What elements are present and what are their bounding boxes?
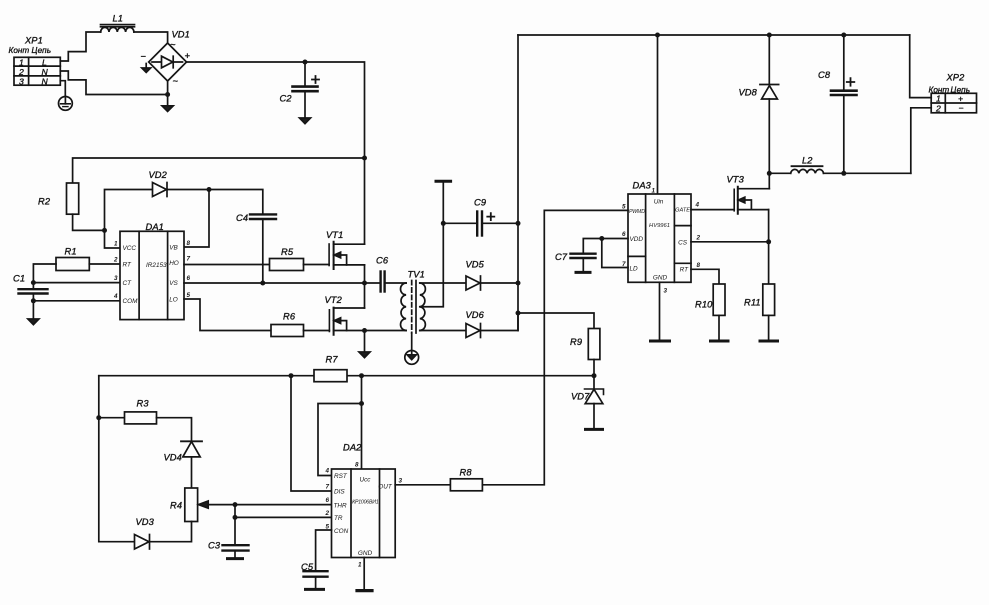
svg-text:CS: CS	[678, 239, 688, 246]
svg-text:8: 8	[187, 240, 191, 247]
svg-text:Ucc: Ucc	[359, 477, 371, 484]
wire rail to DIS pin7	[291, 376, 332, 491]
svg-text:N: N	[42, 76, 49, 86]
svg-text:VDD: VDD	[630, 236, 644, 243]
svg-text:VD1: VD1	[172, 30, 190, 40]
svg-text:2: 2	[935, 103, 941, 113]
transformer TV1 core	[412, 281, 416, 334]
wire XP1 pin1 to L1	[60, 32, 100, 61]
svg-text:−: −	[141, 52, 147, 62]
svg-text:R3: R3	[137, 399, 150, 409]
XP1 labels	[9, 36, 52, 87]
svg-text:L2: L2	[802, 156, 813, 166]
resistor R10	[713, 284, 725, 315]
ground bar VD7	[586, 428, 603, 431]
TV1 screen to earth	[405, 333, 419, 364]
svg-text:VD7: VD7	[571, 392, 590, 402]
wire DA2 OUT pin3 to R8	[395, 484, 450, 486]
svg-text:R2: R2	[38, 197, 51, 207]
capacitor C8 (electrolytic)	[831, 35, 857, 173]
svg-text:3: 3	[114, 275, 118, 282]
svg-text:LD: LD	[630, 266, 639, 273]
ground bar C7	[576, 271, 590, 274]
svg-text:3: 3	[664, 288, 668, 295]
svg-text:R1: R1	[65, 247, 77, 257]
wire R3 to VD4	[157, 418, 192, 441]
wire VDD node to LD pin7	[602, 239, 628, 268]
node bus/R9	[516, 311, 521, 316]
wire VD4 to R4	[191, 457, 193, 488]
resistor R7	[314, 370, 347, 382]
wire bus node to R9	[518, 313, 594, 329]
ground bar C3	[228, 557, 243, 560]
wire C6 to TV1 primary top	[385, 282, 407, 284]
svg-text:C6: C6	[376, 256, 389, 266]
svg-text:C9: C9	[474, 198, 486, 208]
svg-text:5: 5	[187, 292, 191, 299]
svg-text:Uin: Uin	[654, 199, 664, 206]
svg-text:VD5: VD5	[466, 260, 485, 270]
wire VS rail DA1 pin6 to C6	[184, 282, 381, 284]
svg-text:GND: GND	[358, 550, 373, 557]
wire R9 to supply rail node	[593, 360, 595, 376]
svg-text:КР1006ВИ1: КР1006ВИ1	[352, 500, 379, 506]
diode VD8	[760, 35, 779, 173]
capacitor C2 (electrolytic)	[293, 62, 320, 124]
connector XP1	[14, 57, 60, 85]
wire plus output to XP2 pin1	[910, 35, 932, 98]
resistor R11	[763, 284, 775, 315]
wire DA3 RT pin8 to R10	[691, 269, 719, 284]
op-amp U1: driver IC DA1 IR2153	[120, 231, 184, 319]
wire sense node to R11	[768, 242, 770, 284]
svg-text:R10: R10	[695, 300, 713, 310]
wire R5 to VT1 gate	[304, 264, 330, 266]
ground arrow below C1	[28, 319, 39, 325]
wire VB bootstrap to DA1 pin8	[184, 190, 209, 248]
svg-text:RST: RST	[334, 473, 348, 480]
wire rail left leg down	[99, 376, 135, 542]
capacitor C4	[250, 214, 276, 283]
resistor R1	[56, 258, 89, 271]
node COM	[31, 298, 36, 303]
wire minus output to XP2 pin2	[911, 108, 931, 174]
svg-text:N: N	[42, 67, 49, 77]
svg-text:3: 3	[19, 76, 24, 86]
node RST branch	[359, 401, 364, 406]
wire DA3 CS pin2 to sense node	[691, 241, 769, 243]
svg-text:CT: CT	[123, 280, 133, 287]
svg-text:C4: C4	[236, 213, 248, 223]
diode VD3	[135, 535, 150, 550]
svg-text:L: L	[42, 57, 47, 67]
svg-text:3: 3	[399, 478, 403, 485]
node TR branch	[233, 515, 238, 520]
wire VT2 source to TV1 primary bottom	[365, 330, 407, 332]
svg-text:TV1: TV1	[408, 270, 425, 280]
wire switch node to L2	[769, 172, 790, 174]
node rail/C8	[841, 33, 846, 38]
wire rail to VCC pin8	[361, 376, 363, 469]
diode VD5	[466, 276, 481, 290]
svg-text:2: 2	[696, 235, 701, 242]
diode VD2	[153, 183, 168, 197]
wire TR node to DA2 TR pin2	[235, 516, 332, 518]
svg-text:−: −	[959, 103, 964, 113]
node bus/C9	[516, 221, 521, 226]
wire VDD node to DA3 pin6	[602, 238, 628, 240]
svg-text:OUT: OUT	[378, 484, 393, 491]
node VS/VT1 source	[362, 281, 367, 286]
capacitor C7	[571, 254, 596, 272]
wire bridge plus output rail	[187, 62, 365, 244]
svg-text:VB: VB	[169, 244, 178, 251]
svg-text:GATE: GATE	[675, 208, 690, 214]
wire XP1 pin3 to earth	[60, 81, 65, 97]
svg-text:6: 6	[622, 231, 626, 238]
svg-text:VT2: VT2	[325, 295, 343, 305]
capacitor C3	[223, 545, 249, 558]
wire R10 to ground	[718, 315, 720, 340]
svg-text:PWMD: PWMD	[629, 209, 645, 215]
wire R8 up to DA3 PWMD pin5	[482, 210, 628, 484]
svg-text:7: 7	[325, 484, 329, 491]
low-voltage supply rail	[99, 375, 594, 377]
resistor R6	[271, 325, 304, 337]
svg-text:VD6: VD6	[466, 310, 485, 320]
LED driver IC DA3 HV9961	[628, 194, 691, 282]
transistor Q3: MOSFET VT3	[734, 173, 769, 242]
svg-text:DA2: DA2	[343, 443, 362, 453]
svg-text:R8: R8	[460, 468, 473, 478]
resistor R2	[67, 183, 79, 214]
svg-text:1: 1	[19, 57, 24, 67]
capacitor C6	[381, 272, 385, 292]
svg-text:~: ~	[173, 76, 179, 86]
svg-text:R7: R7	[326, 355, 339, 365]
transformer TV1 secondary windings	[420, 283, 426, 331]
node CS/VT3 source	[766, 239, 771, 244]
node: rail to R2 branch	[362, 156, 367, 161]
wire node to DA1 pin1	[105, 230, 121, 248]
ground bar DA3	[651, 340, 670, 343]
svg-text:L1: L1	[113, 14, 124, 24]
capacitor C1	[19, 289, 48, 319]
svg-text:C1: C1	[13, 274, 25, 284]
svg-text:1: 1	[358, 562, 362, 569]
svg-text:7: 7	[187, 256, 191, 263]
node rail/DA3 Uin	[655, 33, 660, 38]
svg-text:C7: C7	[555, 252, 568, 262]
svg-text:THR: THR	[334, 502, 348, 509]
svg-text:VD4: VD4	[164, 453, 182, 463]
svg-text:C3: C3	[208, 541, 221, 551]
diode VD6	[466, 324, 481, 338]
resistor R9	[588, 329, 600, 360]
node R3 branch	[96, 415, 101, 420]
svg-text:2: 2	[18, 67, 24, 77]
wire TV1 centre tap to earth bar	[420, 182, 444, 306]
svg-text:6: 6	[187, 275, 191, 282]
svg-text:4: 4	[113, 293, 118, 300]
node R9/VD7/rail	[592, 373, 597, 378]
svg-text:4: 4	[324, 468, 329, 475]
svg-text:HV9961: HV9961	[649, 223, 670, 229]
svg-text:R5: R5	[281, 247, 294, 257]
svg-text:+: +	[185, 51, 191, 61]
wire COM node to DA1 pin4	[33, 300, 120, 302]
svg-text:VD3: VD3	[136, 517, 155, 527]
wire L2 to output	[824, 172, 911, 174]
ground bar DA2	[357, 589, 372, 592]
resistor R3	[125, 412, 157, 424]
wire RST loop to pin4	[318, 404, 362, 476]
zener diode VD7	[585, 376, 604, 429]
transformer TV1 primary winding	[401, 283, 407, 331]
wire DA1 LO pin5 to R6	[184, 299, 271, 331]
wire Uin stub	[657, 35, 659, 194]
wire L1 to bridge top	[134, 32, 168, 43]
wire R6 to VT2 gate	[304, 330, 330, 332]
wire bridge bottom to ground	[162, 81, 173, 111]
node L2/C8	[841, 171, 846, 176]
svg-text:5: 5	[622, 204, 626, 211]
node VCC junction	[102, 228, 107, 233]
ground bar above TV1 tap	[436, 180, 451, 183]
node: plus rail / C2	[303, 60, 308, 65]
wire DA3 GATE pin4 to VT3	[691, 209, 734, 211]
node wiper/THR	[233, 502, 238, 507]
svg-text:RT: RT	[680, 267, 689, 274]
svg-text:R11: R11	[744, 298, 761, 308]
wire DA2 CON pin5 to C5	[316, 530, 332, 571]
potentiometer R4	[185, 488, 235, 522]
svg-text:Конт: Конт	[9, 46, 30, 55]
XP2 labels	[929, 73, 971, 114]
DA2 labels and pin numbers	[324, 443, 402, 569]
svg-text:8: 8	[697, 262, 701, 269]
svg-text:4: 4	[695, 202, 700, 209]
top DC rail	[518, 34, 910, 36]
wire C9 to DC bus	[482, 222, 518, 224]
svg-text:C5: C5	[301, 562, 314, 572]
wire DA3 GND to ground	[659, 282, 661, 340]
svg-text:VCC: VCC	[123, 245, 137, 252]
bridge rectifier VD1	[149, 43, 187, 81]
resistor R8	[450, 479, 482, 491]
node tap/C9	[441, 221, 446, 226]
ground bar R10	[711, 340, 729, 343]
node switch/L2	[767, 171, 772, 176]
wire R2 bottom to VCC node	[73, 214, 105, 230]
svg-text:LO: LO	[169, 296, 178, 303]
wire VD5 cathode to DC bus	[481, 282, 519, 284]
DA3 labels and pin numbers	[622, 181, 701, 295]
svg-text:R6: R6	[283, 312, 296, 322]
wire CT node to DA1 pin3	[33, 282, 120, 284]
DA1 labels and pin numbers	[113, 222, 191, 305]
wire TV1 secondary top to VD5	[420, 282, 466, 284]
capacitor C5	[304, 571, 328, 589]
svg-text:DA1: DA1	[146, 222, 164, 232]
svg-text:VD8: VD8	[739, 88, 758, 98]
svg-text:~: ~	[170, 40, 176, 50]
node VD2/VB	[207, 187, 212, 192]
transistor Q1: MOSFET VT1	[329, 242, 364, 283]
node bus/VD5	[516, 281, 521, 286]
svg-text:GND: GND	[653, 275, 668, 282]
earth symbol (circle ground) at XP1	[59, 97, 73, 111]
timer IC DA2 KR1006VI1	[332, 469, 396, 558]
node rail/VCC branch	[359, 373, 364, 378]
inductor L1 (common-mode choke)	[101, 25, 135, 32]
svg-text:VS: VS	[169, 280, 178, 287]
wire R4 bottom to VD3	[150, 522, 192, 542]
resistor R5	[270, 259, 304, 271]
svg-text:IR2153: IR2153	[146, 262, 167, 269]
ground bar R11	[760, 340, 778, 343]
wire XP1 pin2 to bridge bottom rail	[60, 71, 167, 95]
node CT	[31, 280, 36, 285]
svg-text:1: 1	[114, 241, 118, 248]
svg-text:COM: COM	[123, 298, 139, 305]
svg-text:CON: CON	[334, 528, 349, 535]
svg-text:Цепь: Цепь	[32, 46, 52, 55]
svg-text:HO: HO	[169, 260, 179, 267]
wire VD2 cathode to C4	[167, 190, 263, 215]
wire R1 to DA1 pin2	[89, 263, 120, 265]
svg-text:VT1: VT1	[326, 230, 343, 240]
capacitor C9 (polarised)	[477, 212, 494, 236]
svg-text:1: 1	[936, 94, 941, 104]
svg-text:6: 6	[325, 497, 329, 504]
svg-text:2: 2	[113, 257, 118, 264]
svg-text:R9: R9	[570, 337, 582, 347]
node VDD	[599, 236, 604, 241]
DC bus vertical	[517, 35, 519, 331]
wire node to R3	[99, 417, 125, 419]
wire tap node to C9	[443, 222, 477, 224]
svg-text:VD2: VD2	[149, 170, 168, 180]
wire node to VD2 anode	[105, 190, 153, 231]
svg-text:DIS: DIS	[334, 489, 345, 496]
zener diode VD4	[181, 441, 202, 457]
VD1 terminal marks	[141, 30, 191, 86]
node rail/DIS branch	[289, 373, 294, 378]
wire DA1 HO pin7 to R5	[184, 264, 270, 266]
svg-text:DA3: DA3	[633, 181, 652, 191]
wire R11 to ground	[768, 315, 770, 340]
wire TV1 secondary bottom to VD6	[420, 330, 466, 332]
svg-text:XP1: XP1	[24, 36, 43, 46]
wire wiper node to DA2 THR pin6	[235, 504, 332, 506]
ground arrow below VT2	[359, 331, 370, 358]
svg-text:RT: RT	[123, 261, 132, 268]
svg-text:C2: C2	[280, 94, 293, 104]
svg-text:TR: TR	[334, 515, 343, 522]
svg-text:1: 1	[651, 188, 655, 195]
node C4/VS rail	[260, 281, 265, 286]
svg-text:8: 8	[355, 462, 359, 469]
svg-text:C8: C8	[818, 70, 831, 80]
svg-text:XP2: XP2	[946, 73, 966, 83]
node VT2 source / primary return	[362, 328, 367, 333]
inductor L2	[791, 166, 824, 173]
wire DA2 GND pin1 to ground	[363, 558, 365, 590]
wire node down to C3	[234, 505, 236, 545]
svg-text:2: 2	[324, 510, 329, 517]
node rail/VD8	[767, 33, 772, 38]
wire VDD node to C7	[583, 239, 602, 254]
ground bar C5	[306, 588, 324, 591]
wire R1 left to CT node	[33, 264, 56, 289]
transistor Q2: MOSFET VT2	[329, 283, 364, 335]
svg-text:VT3: VT3	[727, 175, 745, 185]
connector XP2	[931, 93, 976, 113]
chassis arrow at VD1 minus corner	[142, 64, 151, 73]
wire VD6 cathode to bus	[481, 313, 519, 331]
svg-text:R4: R4	[170, 501, 182, 511]
wire supply rail to R2	[73, 158, 365, 183]
